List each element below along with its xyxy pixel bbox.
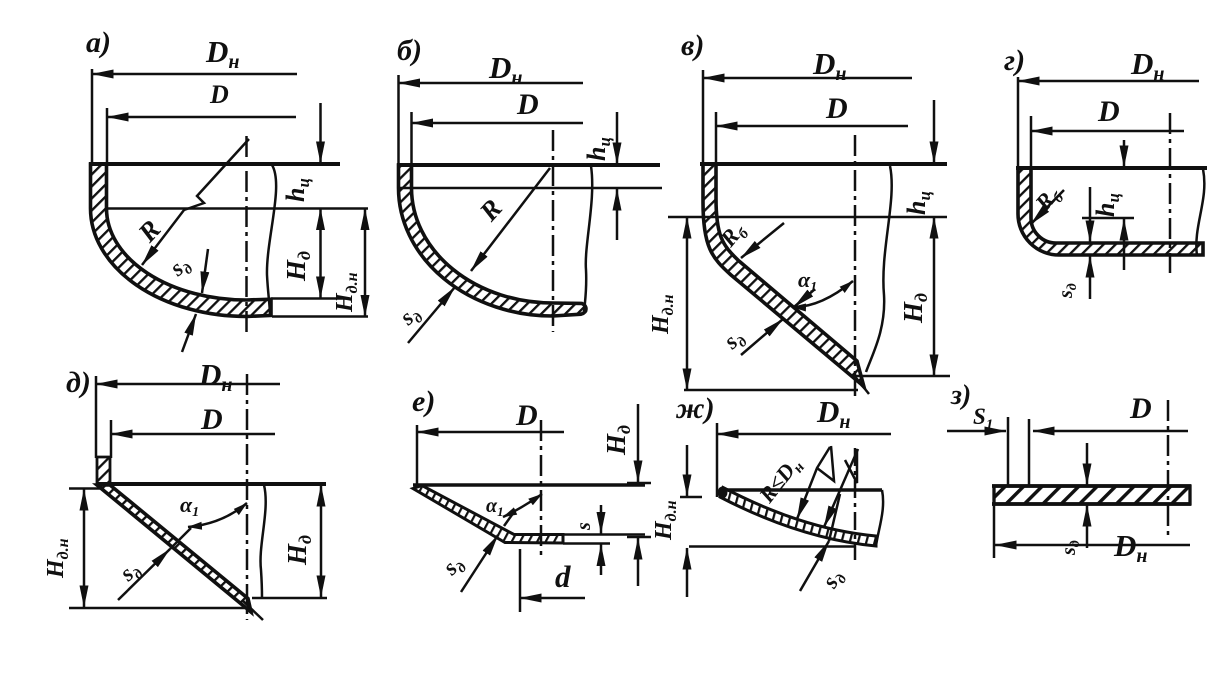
svg-text:D: D [209,80,229,109]
svg-text:α1: α1 [180,492,199,520]
svg-text:sд: sд [817,565,851,595]
svg-text:sд: sд [437,550,470,583]
svg-text:sд: sд [114,556,147,590]
svg-text:sд: sд [718,324,751,358]
svg-text:Dн: Dн [198,357,233,396]
svg-text:Нд.н: Нд.н [648,294,677,335]
svg-text:б): б) [397,34,422,67]
svg-text:sд: sд [394,300,427,334]
svg-text:д): д) [66,366,91,399]
svg-text:hц: hц [902,191,934,215]
svg-text:Нд: Нд [601,425,634,456]
svg-text:D: D [515,399,538,432]
svg-text:D: D [825,92,848,125]
svg-text:hц: hц [582,137,614,161]
svg-text:sд: sд [1055,283,1080,299]
svg-text:α1: α1 [486,495,504,519]
svg-text:s: s [573,522,595,531]
svg-text:Нд: Нд [898,293,931,324]
svg-text:г): г) [1004,44,1025,77]
svg-text:D: D [1129,392,1152,425]
svg-text:Dн: Dн [812,46,847,85]
svg-text:Нд: Нд [282,535,315,566]
svg-text:D: D [516,88,539,121]
svg-text:D: D [200,403,223,436]
svg-text:в): в) [681,29,704,62]
svg-text:Нд.н: Нд.н [332,272,361,313]
svg-text:Dн: Dн [1130,46,1165,85]
svg-text:Dн: Dн [816,394,851,433]
svg-text:з): з) [950,380,971,411]
svg-text:sд: sд [164,251,196,285]
svg-text:D: D [1097,95,1120,128]
svg-text:α1: α1 [798,267,817,295]
svg-text:R≤Dн: R≤Dн [753,452,808,511]
svg-text:Нд.н: Нд.н [651,500,680,541]
svg-text:е): е) [412,385,435,418]
svg-text:Dн: Dн [488,50,523,89]
svg-text:hц: hц [281,178,313,202]
svg-text:R: R [473,193,508,227]
svg-text:Dн: Dн [1113,528,1148,567]
svg-text:sд: sд [1058,540,1083,556]
svg-text:Rб: Rб [1030,181,1068,218]
svg-text:hц: hц [1091,193,1123,217]
svg-text:Нд.н: Нд.н [43,538,72,579]
svg-text:R: R [131,214,166,248]
svg-text:ж): ж) [675,392,715,425]
svg-text:Нд: Нд [281,251,314,282]
svg-text:d: d [555,559,571,594]
svg-text:S1: S1 [973,404,993,433]
svg-text:Dн: Dн [205,34,240,73]
svg-text:а): а) [86,26,111,59]
